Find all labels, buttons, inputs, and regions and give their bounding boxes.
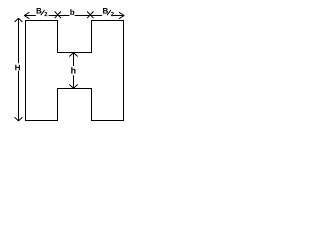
B of left B/2 label xyxy=(37,8,42,14)
arrowhead top of H dimension xyxy=(15,18,23,22)
2 of left B/2 label xyxy=(44,12,47,16)
arrowhead left end of top dimension xyxy=(24,12,29,18)
arrowhead right end of top dimension xyxy=(119,12,124,18)
b label xyxy=(70,9,74,15)
X tick between b and B/2 xyxy=(87,11,93,18)
h dimension vertical line xyxy=(73,53,75,88)
H label xyxy=(15,65,20,71)
2 of right B/2 label xyxy=(111,12,114,16)
slash of right B/2 label xyxy=(107,10,111,15)
arrowhead top of h dimension xyxy=(69,53,77,57)
dimension line b / B2 right segments xyxy=(75,15,125,17)
arrowhead bottom of H dimension xyxy=(15,117,23,121)
X tick between B/2 and b xyxy=(55,11,61,18)
slash of left B/2 label xyxy=(41,10,45,15)
h label xyxy=(71,67,75,74)
B of right B/2 label xyxy=(103,8,108,14)
arrowhead bottom of h dimension xyxy=(69,85,77,89)
H dimension vertical line xyxy=(18,18,20,121)
dimension line B/2 left segment xyxy=(24,15,69,17)
H-section outline xyxy=(26,21,124,121)
